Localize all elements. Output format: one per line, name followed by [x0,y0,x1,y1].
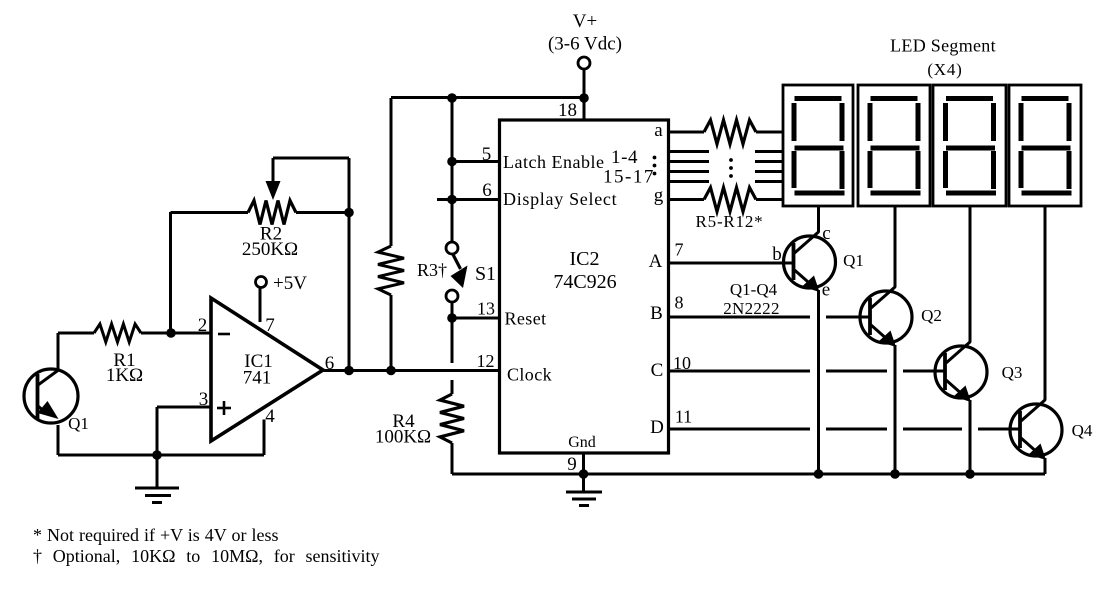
svg-text:15-17: 15-17 [603,167,655,188]
svg-text:1KΩ: 1KΩ [106,365,143,386]
svg-text:† Optional, 10KΩ to 10MΩ, for: † Optional, 10KΩ to 10MΩ, for sensitivit… [33,546,380,566]
svg-text:10: 10 [673,353,691,373]
svg-text:4: 4 [265,406,275,427]
svg-text:C: C [651,360,664,381]
svg-text:Q2: Q2 [921,306,942,325]
svg-text:8: 8 [675,293,684,313]
svg-text:3: 3 [199,389,209,410]
svg-text:1-4: 1-4 [611,147,638,168]
svg-text:2N2222: 2N2222 [723,299,780,318]
svg-text:Q1: Q1 [843,251,864,270]
svg-text:(X4): (X4) [927,60,962,79]
svg-text:250KΩ: 250KΩ [242,239,298,260]
svg-text:Reset: Reset [505,309,547,329]
svg-text:Latch Enable: Latch Enable [503,152,604,172]
svg-text:R5-R12*: R5-R12* [696,212,764,231]
svg-text:6: 6 [325,353,335,374]
svg-text:a: a [654,120,663,141]
svg-text:100KΩ: 100KΩ [375,427,431,448]
svg-text:(3-6 Vdc): (3-6 Vdc) [548,34,622,55]
svg-text:e: e [822,280,830,301]
svg-text:b: b [772,244,782,265]
svg-text:* Not required if +V is 4V or: * Not required if +V is 4V or less [33,525,278,545]
svg-text:2: 2 [198,315,208,336]
svg-text:A: A [649,251,663,272]
svg-text:V+: V+ [573,11,597,32]
svg-text:LED Segment: LED Segment [890,36,996,56]
svg-text:+5V: +5V [273,273,307,294]
svg-text:5: 5 [482,144,492,165]
svg-text:c: c [822,223,830,244]
svg-text:12: 12 [477,351,495,371]
svg-text:g: g [654,185,664,206]
svg-text:IC2: IC2 [570,248,600,270]
svg-text:11: 11 [675,407,692,427]
svg-text:Display Select: Display Select [503,189,617,209]
svg-text:B: B [650,303,663,324]
svg-text:Q1-Q4: Q1-Q4 [730,280,778,299]
svg-text:D: D [650,417,664,438]
svg-text:7: 7 [675,240,684,260]
svg-text:74C926: 74C926 [553,271,616,293]
svg-text:741: 741 [243,368,272,389]
svg-text:Gnd: Gnd [568,434,596,451]
svg-text:13: 13 [477,299,495,319]
svg-text:Clock: Clock [507,365,552,385]
svg-text:S1: S1 [475,263,496,285]
svg-text:Q1: Q1 [68,414,89,433]
svg-text:9: 9 [567,454,577,475]
svg-text:18: 18 [558,100,577,121]
svg-text:7: 7 [265,315,275,336]
svg-text:6: 6 [482,180,492,201]
svg-text:Q4: Q4 [1072,421,1093,440]
svg-text:R3†: R3† [417,260,447,280]
svg-text:Q3: Q3 [1002,363,1023,382]
